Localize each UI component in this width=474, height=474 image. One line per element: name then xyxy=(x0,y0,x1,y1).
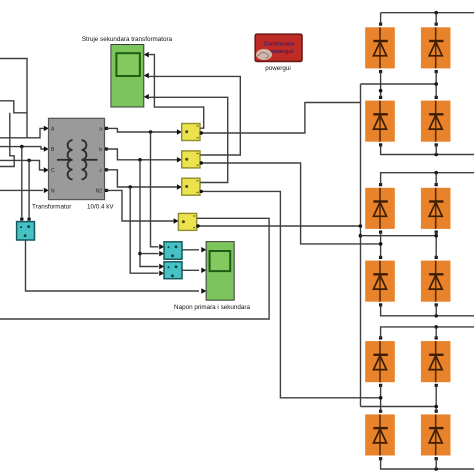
svg-text:10/0.4 kV: 10/0.4 kV xyxy=(87,204,114,211)
wire branch b to U6 v- xyxy=(140,253,159,255)
wire bridge2 col2 bottom drop xyxy=(435,305,437,316)
wire neutral feed to transformer port N xyxy=(0,189,43,191)
wire bridge2 col1 mid xyxy=(380,232,382,258)
wire bridge1 col2 top drop xyxy=(435,13,437,25)
node bridge2 rail top junction xyxy=(434,171,438,175)
wire U6 output to SC2 port1 xyxy=(182,249,199,251)
node bridge2 rail bottom junction xyxy=(434,314,438,318)
wire I2 to bridge2 left midpoint xyxy=(200,163,380,244)
wire I4 signal long loop left xyxy=(0,218,269,319)
wire bridge3 col2 top drop xyxy=(435,327,437,338)
wire bridge3 right midpoint link xyxy=(361,406,437,408)
diode D7 port stubs xyxy=(379,256,382,259)
wire bridge2 col2 top drop xyxy=(435,173,437,185)
diode D10 xyxy=(421,341,451,382)
wire U5 output to SC2 port3 xyxy=(26,240,200,291)
diode D2 xyxy=(421,27,451,68)
wire voltage tap v+ down to U5 xyxy=(21,147,23,217)
wire bridge3 col2 mid xyxy=(435,385,437,411)
svg-text:N2: N2 xyxy=(96,188,103,194)
arrow into I3 xyxy=(177,184,182,190)
node bridge1 col2 mid junction xyxy=(434,82,438,86)
diode D1 port stubs xyxy=(379,23,382,26)
wire secondary c to I3 xyxy=(107,170,178,187)
node bridge1 rail bottom junction xyxy=(434,153,438,157)
diode D11 port stubs xyxy=(379,410,382,413)
wire bridge2 col2 mid xyxy=(435,232,437,258)
diode D2 port stubs xyxy=(435,23,438,26)
diode D3 port stubs xyxy=(379,96,382,99)
diode D12 xyxy=(421,414,451,455)
diode D10 port stubs xyxy=(435,336,438,339)
scope SC1 Struje sekundara transformatora xyxy=(111,45,144,108)
wire bridge2 right midpoint link xyxy=(360,235,436,237)
node I3 out port xyxy=(200,190,203,193)
svg-text:Napon primara i sekundara: Napon primara i sekundara xyxy=(174,304,250,311)
node junction on phase B wire xyxy=(20,145,24,149)
scope SC1 input arrows xyxy=(144,52,149,58)
wire secondary b to I2 xyxy=(107,149,178,160)
wire bridge1 col2 mid xyxy=(435,71,437,97)
svg-text:powergui: powergui xyxy=(265,65,291,72)
node I1 out port xyxy=(200,131,203,134)
wire bridge3 col2 bottom drop xyxy=(435,459,437,470)
wire bridge3 rail top xyxy=(381,327,474,338)
wire I4 to neutral bus xyxy=(197,225,360,227)
diode D11 xyxy=(365,414,395,455)
wire tap b down xyxy=(140,160,159,267)
wire voltage tap v- down to U5 xyxy=(28,160,30,217)
wire tap c down to U7 v- xyxy=(130,187,158,273)
wire bridge1 col2 bottom drop xyxy=(435,145,437,155)
wire secondary a to I1 xyxy=(107,128,178,132)
wire tap a down to U6 v+ xyxy=(151,132,159,247)
diode D9 port stubs xyxy=(379,336,382,339)
node bridge3 col1 mid junction xyxy=(379,396,383,400)
wire aux loop joining phase A vertical xyxy=(0,101,27,113)
svg-text:N: N xyxy=(51,188,55,194)
svg-text:C: C xyxy=(51,168,55,174)
diode D8 xyxy=(421,261,451,302)
wire bridge2 rail bottom xyxy=(381,305,474,316)
svg-text:powergui: powergui xyxy=(269,49,294,55)
node neutral tee 1 xyxy=(359,224,363,228)
wire bridge1 mid horizontal xyxy=(361,83,437,85)
wire I1 signal to SC1 port1 xyxy=(149,55,204,129)
node I4 out port xyxy=(196,224,199,227)
wire phase B feed to transformer port B xyxy=(0,147,45,149)
diode D8 port stubs xyxy=(435,256,438,259)
wire I1 to bridge1 midpoint xyxy=(200,103,361,134)
node junction secondary c xyxy=(128,185,132,189)
scope SC2 Napon primara i sekundara xyxy=(206,242,234,301)
current measurement I1 xyxy=(182,124,200,141)
transformer T1 right port stubs xyxy=(105,127,108,130)
node rail top junction xyxy=(434,11,438,15)
node bridge2 col1 mid junction xyxy=(379,242,383,246)
diode D12 port stubs xyxy=(435,410,438,413)
diode D5 xyxy=(365,188,395,229)
diode D4 port stubs xyxy=(435,96,438,99)
transformer T1 10/0.4 kV xyxy=(49,118,105,199)
wire I2 signal to SC1 port2 xyxy=(149,76,241,155)
wire secondary N2 to I4 xyxy=(107,190,174,221)
arrow into I2 xyxy=(177,157,182,163)
node bridge1 col1 mid junction xyxy=(379,89,383,93)
node bridge2 col2 mid junction xyxy=(434,234,438,238)
node junction secondary b xyxy=(138,158,142,162)
svg-text:Transformator: Transformator xyxy=(32,204,71,211)
wire bridge1 col1 mid xyxy=(380,71,382,97)
wire I3 signal to SC1 port3 xyxy=(149,97,228,182)
wire phase A feed from offscreen left to transformer port A xyxy=(0,59,44,138)
node junction on phase C wire xyxy=(27,159,31,163)
wire bridge3 col1 mid xyxy=(380,385,382,411)
arrow into I1 xyxy=(177,129,182,135)
diode D9 xyxy=(365,341,395,382)
current measurement I3 xyxy=(182,178,200,195)
wire bridge2 rail top xyxy=(381,173,474,185)
svg-text:b: b xyxy=(99,147,102,153)
diode D4 xyxy=(421,101,451,142)
diode D5 port stubs xyxy=(379,183,382,186)
voltage measurement U7 Vbc xyxy=(164,262,182,279)
node neutral tee 2 xyxy=(359,234,363,238)
current measurement I4 xyxy=(178,213,196,230)
node junction tap b to U6 v- xyxy=(138,252,142,256)
node bridge3 rail top junction xyxy=(434,325,438,329)
wire DC rail top xyxy=(381,12,474,14)
wire aux loop lower zigzag xyxy=(0,113,14,167)
node bridge3 col2 mid junction xyxy=(434,405,438,409)
diode D3 xyxy=(365,101,395,142)
voltage measurement U5 port stubs xyxy=(20,217,23,220)
diode D7 xyxy=(365,261,395,302)
svg-text:Struje sekundara transformator: Struje sekundara transformatora xyxy=(82,36,173,43)
wire bridge1 col1 top drop xyxy=(380,13,382,25)
diode D6 xyxy=(421,188,451,229)
wire I3 to bridge3 left midpoint xyxy=(200,191,380,397)
wire bridge1 rail bottom xyxy=(381,145,474,155)
node junction secondary a xyxy=(149,130,153,134)
svg-text:Continuous: Continuous xyxy=(263,42,294,48)
powergui block xyxy=(255,34,302,61)
diode D6 port stubs xyxy=(435,183,438,186)
voltage measurement U6 Vab xyxy=(164,242,182,259)
node I2 out port xyxy=(200,161,203,164)
svg-text:a: a xyxy=(99,126,102,132)
current measurement I2 xyxy=(182,151,200,168)
wire bridge3 rail bottom xyxy=(381,459,474,470)
wire phase C feed to transformer port C xyxy=(0,160,44,170)
wire U7 output to SC2 port2 xyxy=(182,269,199,271)
voltage measurement U5 primary xyxy=(17,222,35,240)
diode D1 xyxy=(365,27,395,68)
node bridge3 rail bottom junction xyxy=(434,467,438,471)
wire common vertical bus xyxy=(360,84,362,407)
